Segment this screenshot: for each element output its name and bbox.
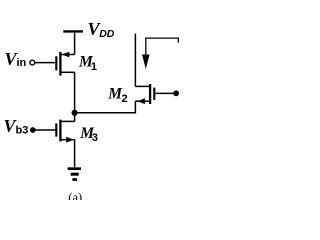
gate bar — [55, 123, 57, 136]
wire M1 drain down to node — [74, 72, 76, 113]
wire current-arrow polyline top right — [146, 38, 179, 56]
channel bar — [59, 120, 61, 142]
source lead top with PMOS arrow — [62, 54, 75, 56]
arrow (PMOS source arrow pointing left) — [62, 52, 70, 58]
wire gate lead M3 — [36, 129, 56, 131]
svg-text:2: 2 — [122, 93, 128, 105]
source lead bottom with NMOS arrow — [62, 139, 75, 141]
drain lead (top, toward left) — [135, 85, 149, 87]
arrow (NMOS source arrow pointing left/away) — [138, 98, 145, 104]
drain lead bottom — [62, 71, 75, 73]
gate bar — [55, 56, 57, 70]
wire M3 source down to ground — [74, 140, 76, 169]
wire M3 drain up to node — [74, 113, 76, 122]
svg-text:DD: DD — [99, 28, 115, 40]
ground — [68, 169, 81, 180]
node Vb3 input terminal (filled dot) — [30, 127, 36, 133]
wire VDD stub to M1 source — [74, 31, 76, 54]
transistor M3 (NMOS) — [36, 120, 75, 142]
node A junction dot — [72, 110, 78, 116]
channel bar — [59, 52, 61, 76]
svg-text:in: in — [17, 57, 27, 69]
channel bar — [149, 84, 151, 104]
arrow (NMOS source arrow pointing right/away) — [66, 137, 73, 143]
node gate terminal dot of M2 — [173, 90, 179, 96]
drain lead top — [62, 120, 75, 122]
wire M2 drain up — [134, 34, 136, 87]
svg-text:1: 1 — [91, 61, 97, 73]
transistor M1 (PMOS) — [35, 52, 75, 76]
source lead (bottom, toward left) — [135, 100, 149, 102]
wire node to M2 source riser — [75, 101, 136, 113]
svg-text:b3: b3 — [16, 124, 29, 136]
transistor M2 (NMOS, rotated, gate at right) — [135, 84, 173, 104]
gate bar — [153, 88, 155, 100]
node Vin input terminal (open circle) — [30, 60, 35, 65]
wire gate lead to terminal — [155, 92, 173, 94]
svg-text:3: 3 — [92, 132, 98, 144]
VDD supply bar — [63, 30, 83, 32]
svg-text:(a): (a) — [68, 191, 82, 200]
wire gate lead M1 — [35, 62, 56, 64]
arrow (current direction down into M2 drain) — [142, 55, 150, 70]
